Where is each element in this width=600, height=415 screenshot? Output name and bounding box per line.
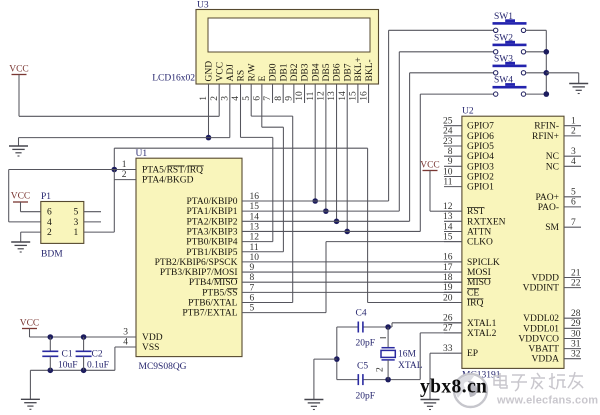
- svg-text:10: 10: [295, 91, 305, 101]
- wire LCD R/W to U1 pin 6: [250, 103, 252, 116]
- wire U2 EP to ground: [430, 352, 444, 354]
- svg-text:1: 1: [199, 96, 209, 101]
- svg-text:BDM: BDM: [41, 250, 63, 260]
- svg-text:15: 15: [349, 91, 359, 101]
- overline on SS of PTB5/SS: [227, 288, 238, 290]
- svg-text:2: 2: [376, 367, 386, 372]
- wire VCC stick to VDD rail: [29, 329, 31, 338]
- node junction C2 top: [81, 334, 87, 340]
- svg-text:PTA2/KBIP2: PTA2/KBIP2: [187, 217, 238, 227]
- svg-text:4: 4: [231, 96, 241, 101]
- svg-text:VDDA: VDDA: [532, 355, 560, 365]
- svg-text:U1: U1: [136, 149, 148, 159]
- capacitor C5: [358, 374, 363, 385]
- svg-text:VDDINT: VDDINT: [523, 284, 560, 294]
- node junction C1 top: [48, 334, 54, 340]
- svg-text:PTB7/EXTAL: PTB7/EXTAL: [182, 309, 237, 319]
- svg-text:16: 16: [359, 91, 369, 101]
- svg-text:5: 5: [242, 96, 252, 101]
- capacitor C2: [76, 337, 92, 370]
- svg-text:PTB0/KBIP4: PTB0/KBIP4: [186, 238, 237, 248]
- node junction crystal bottom: [385, 377, 391, 383]
- node junction rail SW4: [544, 91, 550, 97]
- svg-text:12: 12: [443, 202, 453, 212]
- switch SW2: [493, 33, 527, 54]
- wire VCC to P1 pin 6: [20, 202, 22, 212]
- svg-text:10uF: 10uF: [58, 361, 78, 371]
- svg-text:32: 32: [571, 350, 581, 360]
- ground (switches): [569, 84, 588, 94]
- microcontroller U1 MC9S08QG: [136, 158, 242, 356]
- svg-text:9: 9: [285, 96, 295, 101]
- wire SW1 right terminal to rail: [526, 29, 547, 31]
- svg-text:3: 3: [123, 328, 128, 338]
- svg-text:9: 9: [448, 157, 453, 167]
- watermark logo circle: [454, 374, 487, 407]
- svg-text:NC: NC: [546, 162, 559, 172]
- wire ground rail drop: [18, 138, 20, 146]
- svg-text:23: 23: [443, 137, 453, 147]
- wire U1 pin1 IRQ net to U2 IRQ: [113, 148, 115, 169]
- svg-text:18: 18: [443, 273, 453, 283]
- svg-text:DB0: DB0: [269, 63, 279, 81]
- svg-text:2: 2: [122, 170, 127, 180]
- svg-text:VDDVCO: VDDVCO: [518, 335, 559, 345]
- BDM connector P1: [41, 202, 84, 244]
- svg-text:PTA0/KBIP0: PTA0/KBIP0: [187, 197, 238, 207]
- svg-text:29: 29: [571, 319, 581, 329]
- P1 pin 5 stub lead: [84, 211, 101, 213]
- svg-text:PTB3/KBIP7/MOSI: PTB3/KBIP7/MOSI: [160, 268, 238, 278]
- ground (P1 BDM): [11, 242, 30, 252]
- VCC power symbol (P1): [11, 192, 31, 203]
- wire XTAL1 rail: [337, 326, 359, 328]
- svg-text:7: 7: [263, 96, 273, 101]
- node junction crystal ground stub: [334, 356, 340, 362]
- svg-text:GND: GND: [205, 61, 215, 82]
- svg-text:IRQ: IRQ: [467, 299, 484, 309]
- svg-text:XTAL1: XTAL1: [467, 319, 497, 329]
- svg-text:4: 4: [47, 218, 52, 228]
- svg-text:19: 19: [443, 283, 453, 293]
- ground (LCD): [9, 146, 28, 156]
- svg-text:RFIN+: RFIN+: [532, 132, 559, 142]
- svg-text:PTB2/KBIP6/SPSCK: PTB2/KBIP6/SPSCK: [155, 258, 238, 268]
- svg-text:P1: P1: [41, 192, 51, 202]
- svg-text:VCC: VCC: [215, 62, 225, 82]
- svg-text:13: 13: [443, 212, 453, 222]
- wire VCC to LCD pin 2: [18, 75, 20, 117]
- wire U1 pin10 SPSCK to U2 SPICLK: [242, 261, 462, 263]
- svg-text:30: 30: [571, 329, 581, 339]
- svg-text:C5: C5: [357, 362, 368, 372]
- svg-text:11: 11: [443, 177, 452, 187]
- svg-text:EP: EP: [467, 349, 478, 359]
- svg-text:C4: C4: [356, 309, 367, 319]
- svg-text:GPIO6: GPIO6: [467, 132, 494, 142]
- svg-text:20pF: 20pF: [356, 339, 376, 349]
- svg-text:VCC: VCC: [9, 65, 29, 75]
- wire switch common rail: [545, 30, 547, 94]
- watermark Chinese characters: [494, 372, 583, 391]
- wire VCC to U2 pin 12 RST: [429, 171, 431, 212]
- svg-text:RS: RS: [237, 70, 247, 82]
- svg-text:DB1: DB1: [279, 63, 289, 81]
- node junction crystal top: [385, 324, 391, 330]
- svg-text:MC9S08QG: MC9S08QG: [139, 362, 187, 372]
- node junction LCD GND rail: [206, 135, 212, 141]
- svg-text:DB7: DB7: [343, 63, 353, 81]
- svg-text:10: 10: [443, 167, 453, 177]
- wire SW2 right terminal to rail: [526, 51, 547, 53]
- VCC power symbol (top left, LCD): [9, 65, 29, 75]
- svg-text:GPIO3: GPIO3: [467, 162, 494, 172]
- wire U1 pin9 MOSI to U2 MOSI: [242, 271, 462, 273]
- svg-text:2: 2: [210, 96, 220, 101]
- wire U1 pin14 row to SW3: [242, 220, 410, 222]
- svg-text:CLKO: CLKO: [467, 238, 493, 248]
- wire U1 pin5 EXTAL to U2 CLKO: [242, 312, 326, 314]
- svg-text:PTB1/KBIP5: PTB1/KBIP5: [186, 248, 237, 258]
- svg-text:VDDD: VDDD: [532, 274, 560, 284]
- wire U1 pin13 row to SW4: [242, 230, 420, 232]
- svg-text:www.elecfans.com: www.elecfans.com: [496, 395, 598, 407]
- wire U1 pin4 VSS to ground rail: [115, 346, 136, 348]
- node junction rail SW3: [544, 70, 550, 76]
- wire crystal ground stub: [314, 358, 337, 360]
- RF transceiver U2 MC13191: [462, 116, 564, 368]
- svg-text:VBATT: VBATT: [528, 345, 559, 355]
- node junction RST/IRQ: [112, 167, 118, 173]
- svg-text:21: 21: [571, 268, 581, 278]
- svg-text:PTB5/SS: PTB5/SS: [202, 288, 237, 298]
- svg-text:MOSI: MOSI: [467, 268, 491, 278]
- wire VDD rail U1 pin3: [30, 336, 137, 338]
- svg-text:RFIN-: RFIN-: [534, 122, 559, 132]
- ground (U2 EP): [421, 400, 440, 410]
- wire U1 pin1 to P1 pin4: [9, 169, 136, 171]
- svg-text:6: 6: [253, 96, 263, 101]
- svg-text:XTAL2: XTAL2: [467, 329, 497, 339]
- U2 left pin leads: [444, 125, 462, 127]
- wire LCD pin3 ADJ to ground rail: [229, 103, 231, 138]
- svg-text:3: 3: [571, 147, 576, 157]
- wire SW3 right terminal to rail: [526, 72, 547, 74]
- svg-text:ybx8.cn: ybx8.cn: [420, 377, 487, 398]
- svg-text:4: 4: [123, 338, 128, 348]
- svg-text:VCC: VCC: [20, 319, 40, 329]
- wire LCD pin1 GND down to ground rail: [208, 103, 210, 138]
- svg-text:25: 25: [443, 117, 453, 127]
- VCC power symbol (U1 VDD): [20, 319, 40, 329]
- svg-text:BKL+: BKL+: [354, 57, 364, 81]
- capacitor C1: [42, 337, 58, 370]
- svg-text:31: 31: [571, 339, 581, 349]
- svg-text:VDD: VDD: [142, 333, 163, 343]
- svg-text:20: 20: [443, 293, 453, 303]
- svg-text:SPICLK: SPICLK: [467, 258, 500, 268]
- svg-text:C1: C1: [62, 350, 73, 360]
- svg-text:C2: C2: [92, 350, 103, 360]
- svg-text:22: 22: [571, 278, 581, 288]
- svg-text:11: 11: [306, 91, 316, 100]
- svg-text:ATTN: ATTN: [467, 228, 491, 238]
- svg-text:VCC: VCC: [420, 161, 440, 171]
- switch SW3: [493, 54, 527, 75]
- svg-text:1: 1: [571, 117, 576, 127]
- switch SW4: [493, 76, 527, 97]
- ground (crystal): [304, 400, 323, 410]
- svg-text:4: 4: [571, 157, 576, 167]
- svg-text:MISO: MISO: [467, 278, 491, 288]
- wire U1 pin16 row to SW1: [242, 200, 389, 202]
- svg-text:VCC: VCC: [11, 192, 31, 202]
- svg-text:12: 12: [317, 91, 327, 101]
- svg-text:SM: SM: [545, 223, 559, 233]
- wire XTAL2 rail: [337, 379, 359, 381]
- node junction rail SW2: [544, 49, 550, 55]
- svg-text:GPIO7: GPIO7: [467, 122, 494, 132]
- node junction DB7/KBIP3: [344, 229, 350, 235]
- svg-text:GPIO2: GPIO2: [467, 173, 494, 183]
- node junction DB4/KBIP0: [312, 198, 318, 204]
- svg-text:GPIO1: GPIO1: [467, 183, 494, 193]
- svg-text:14: 14: [338, 91, 348, 101]
- wire LCD DB4 to U1 pin 16: [314, 103, 316, 201]
- svg-text:16M: 16M: [398, 350, 417, 360]
- switch SW1: [493, 12, 527, 33]
- svg-text:17: 17: [443, 263, 453, 273]
- wire ground rail drop: [29, 370, 31, 399]
- svg-text:5: 5: [74, 208, 79, 218]
- svg-text:BKL-: BKL-: [365, 59, 375, 81]
- wire LCD DB6 to U1 pin 14: [336, 103, 338, 221]
- wire LCD DB5 to U1 pin 15: [325, 103, 327, 211]
- svg-text:2: 2: [571, 127, 576, 137]
- svg-text:26: 26: [443, 314, 453, 324]
- svg-text:LCD16x02: LCD16x02: [152, 74, 195, 84]
- VCC power symbol (U2 RST pull-up): [420, 161, 440, 171]
- svg-text:13: 13: [327, 91, 337, 101]
- svg-text:7: 7: [571, 218, 576, 228]
- LCD display window: [208, 18, 370, 52]
- node junction C2 bottom: [81, 368, 87, 374]
- svg-text:20pF: 20pF: [356, 392, 376, 402]
- svg-text:RST: RST: [467, 207, 485, 217]
- svg-text:6: 6: [47, 208, 52, 218]
- wire U1 pin7 SS to U2 CE: [242, 291, 462, 293]
- wire crystal left rail: [336, 327, 338, 380]
- U2 left pin names: [467, 122, 494, 132]
- svg-text:PTA5/RST/IRQ: PTA5/RST/IRQ: [142, 166, 203, 176]
- wire LCD DB7 to U1 pin 13: [346, 103, 348, 231]
- wire ground rail: [19, 137, 230, 139]
- node junction DB5/KBIP1: [323, 208, 329, 214]
- wire rail to ground: [546, 72, 578, 74]
- svg-text:PTA4/BKGD: PTA4/BKGD: [142, 176, 194, 186]
- svg-text:R/W: R/W: [247, 64, 257, 82]
- svg-text:U2: U2: [462, 107, 474, 117]
- svg-text:PTA1/KBIP1: PTA1/KBIP1: [187, 207, 238, 217]
- svg-text:0.1uF: 0.1uF: [87, 361, 109, 371]
- node junction C1 bottom: [48, 368, 54, 374]
- svg-text:8: 8: [448, 147, 453, 157]
- svg-text:24: 24: [443, 127, 453, 137]
- svg-text:NC: NC: [546, 152, 559, 162]
- P1 pin 3 stub lead: [84, 221, 101, 223]
- svg-text:XTAL: XTAL: [398, 361, 423, 371]
- wire LCD E to U1 pin 11: [261, 103, 263, 127]
- svg-text:DB6: DB6: [333, 63, 343, 81]
- wire P1 pin2 to ground: [21, 231, 41, 233]
- svg-text:DB5: DB5: [322, 63, 332, 81]
- svg-text:E: E: [258, 76, 268, 82]
- svg-text:2: 2: [47, 228, 52, 238]
- svg-text:PTA3/KBIP3: PTA3/KBIP3: [187, 227, 238, 237]
- svg-text:1: 1: [122, 160, 127, 170]
- svg-text:8: 8: [274, 96, 284, 101]
- svg-text:5: 5: [571, 188, 576, 198]
- wire U1 pin8 MISO to U2 MISO: [242, 281, 462, 283]
- svg-text:VSS: VSS: [142, 343, 159, 353]
- wire SW4 right terminal to rail: [526, 93, 547, 95]
- svg-text:GPIO5: GPIO5: [467, 142, 494, 152]
- svg-text:15: 15: [443, 232, 453, 242]
- svg-text:3: 3: [221, 96, 231, 101]
- capacitor C4: [358, 322, 363, 333]
- U3 pin leads 1-16: [208, 84, 210, 103]
- overline on MISO of PTB4/MISO: [214, 278, 238, 280]
- LCD module U3: [196, 10, 379, 85]
- svg-text:ADJ: ADJ: [226, 64, 236, 82]
- svg-text:GPIO4: GPIO4: [467, 152, 494, 162]
- svg-text:33: 33: [443, 344, 453, 354]
- svg-text:14: 14: [443, 222, 453, 232]
- wire U1 pin15 row to SW2: [242, 210, 399, 212]
- node junction DB6/KBIP2: [334, 219, 340, 225]
- svg-text:U3: U3: [197, 1, 209, 11]
- svg-text:1: 1: [74, 228, 79, 238]
- wire U1 pin2 BKGD to P1 pin1: [114, 179, 136, 181]
- svg-text:DB3: DB3: [301, 63, 311, 81]
- svg-text:PTB6/XTAL: PTB6/XTAL: [188, 299, 238, 309]
- svg-text:DB2: DB2: [290, 63, 300, 81]
- svg-text:DB4: DB4: [311, 63, 321, 81]
- ground (U1 VSS): [21, 399, 40, 409]
- svg-text:PAO-: PAO-: [538, 203, 559, 213]
- svg-text:PAO+: PAO+: [536, 193, 560, 203]
- U1 pin 1 name PTA5/RST/IRQ: [142, 166, 204, 176]
- svg-text:3: 3: [74, 218, 79, 228]
- svg-text:VDDL01: VDDL01: [523, 324, 559, 334]
- svg-text:16: 16: [443, 253, 453, 263]
- svg-text:CE: CE: [467, 288, 479, 298]
- svg-text:28: 28: [571, 309, 581, 319]
- U2 right pin leads: [564, 125, 581, 127]
- svg-text:6: 6: [571, 198, 576, 208]
- crystal Y1 16MHz: [380, 327, 395, 380]
- svg-text:VDDL02: VDDL02: [523, 314, 559, 324]
- wire LCD RS to U1 pin 12: [240, 103, 242, 137]
- svg-text:PTB4/MISO: PTB4/MISO: [189, 278, 238, 288]
- svg-text:RXTXEN: RXTXEN: [467, 217, 506, 227]
- svg-text:27: 27: [443, 324, 453, 334]
